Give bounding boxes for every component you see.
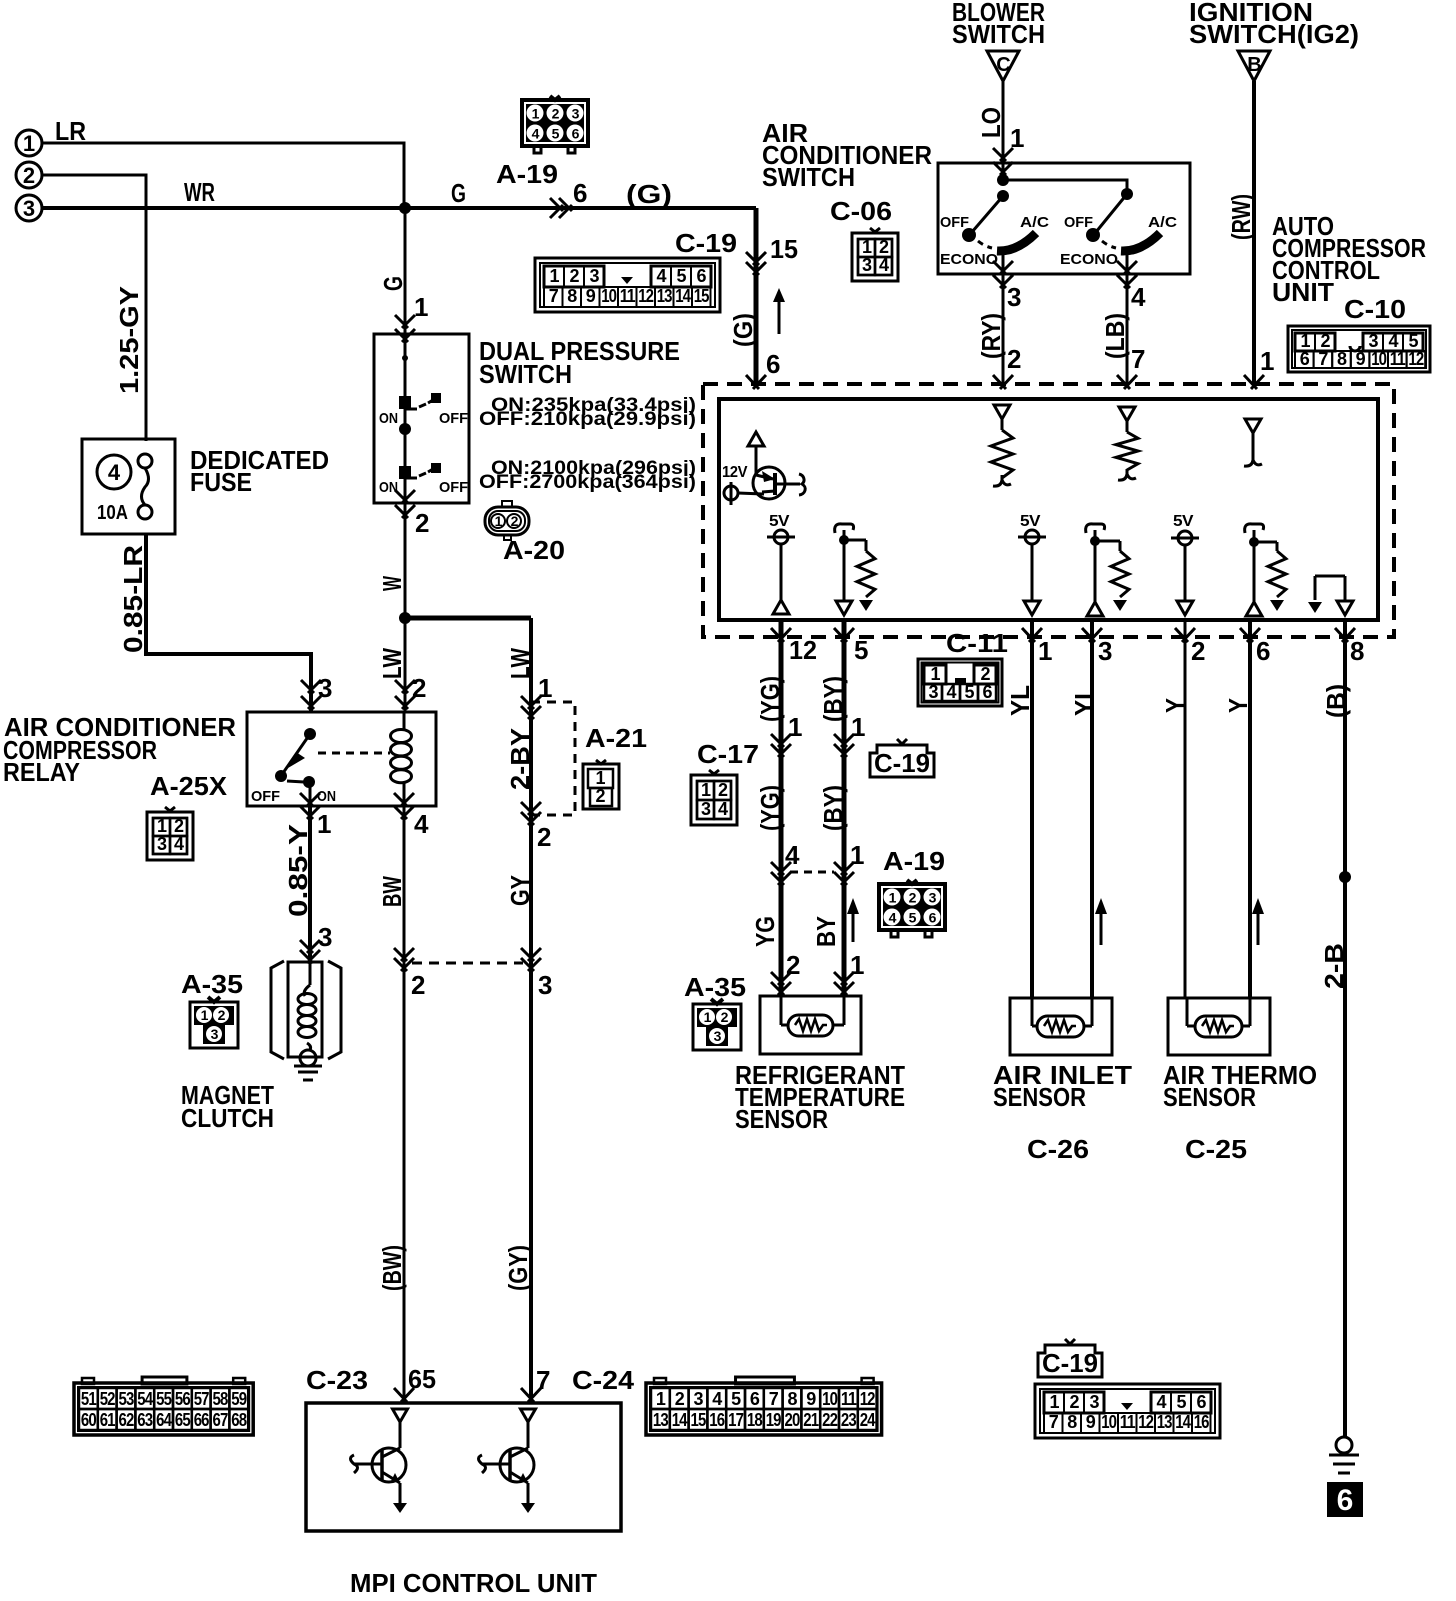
svg-text:4: 4 [532,126,540,142]
DPS small dot top [402,355,408,361]
wire 0.85-Y [308,806,312,961]
junction W/LW [399,612,411,624]
svg-text:A-35: A-35 [181,969,243,999]
svg-text:11: 11 [841,1389,857,1409]
svg-text:3: 3 [701,799,711,819]
svg-text:1: 1 [157,816,167,836]
svg-text:1: 1 [1049,1392,1059,1412]
chevron DPS pin 1 [395,315,415,328]
chevron C-19 pin 1 (BY) [834,734,854,747]
chevron magnet clutch pin 3 [300,940,320,953]
chevron DPS pin 2 [395,490,415,503]
connector A-35 icon (magnet clutch) [190,1002,238,1048]
wire G bus to right edge [754,208,759,384]
DPS switch 2 blade [419,469,433,476]
pin 12 internal triangle [773,600,789,614]
chevron relay pin 1 [300,793,320,806]
DPS wire internal [404,208,407,334]
DPS junction dot [399,423,411,435]
ground reference 6 box [1327,1482,1363,1517]
svg-text:2-B: 2-B [1319,943,1349,989]
svg-text:G: G [451,178,466,208]
svg-text:13: 13 [1157,1412,1173,1432]
svg-text:1: 1 [656,1389,666,1409]
svg-text:7: 7 [1049,1412,1059,1432]
svg-text:3: 3 [589,266,599,286]
svg-text:2: 2 [595,786,605,806]
svg-text:5: 5 [731,1389,741,1409]
svg-text:ECONO: ECONO [1060,251,1118,268]
svg-text:LO: LO [976,107,1006,138]
wire YL left [1030,620,1034,998]
svg-text:UNIT: UNIT [1272,277,1334,307]
svg-text:1: 1 [201,1007,209,1023]
svg-text:C-19: C-19 [1042,1348,1098,1378]
internal pin (RY) triangle [994,405,1010,419]
svg-text:4: 4 [712,1389,722,1409]
svg-text:12: 12 [860,1389,876,1409]
svg-text:(B): (B) [1321,684,1351,718]
svg-text:1: 1 [851,712,865,742]
connector A-35 icon (refrigerant) [693,1004,741,1050]
svg-text:2: 2 [415,508,429,538]
svg-text:1: 1 [1038,636,1052,666]
svg-text:54: 54 [137,1389,153,1409]
svg-text:ON: ON [379,479,398,496]
MPI transistor Q2 [393,1409,408,1422]
refrigerant sensor thermistor [780,996,783,1025]
A/C switch internal wire [1002,163,1005,180]
svg-text:13: 13 [653,1410,669,1430]
chevron relay pin 3 [301,680,321,693]
svg-text:2: 2 [1191,636,1205,666]
wire 0.85-LR fuse to relay pin 3 [146,534,311,712]
wire BW [403,806,406,1403]
svg-text:3: 3 [538,970,552,1000]
internal up arrow triangle [748,432,764,446]
svg-text:2: 2 [569,266,579,286]
svg-text:0.85-Y: 0.85-Y [283,824,313,917]
direction arrow (air inlet) [1100,912,1103,945]
svg-text:(YG): (YG) [755,785,785,831]
air conditioner compressor relay box [247,712,436,806]
svg-text:(LB): (LB) [1100,313,1130,359]
relay coil [403,712,406,730]
svg-text:5: 5 [1408,331,1418,351]
internal pin (RW) triangle [1245,419,1261,433]
svg-text:4: 4 [718,799,728,819]
air inlet sensor box [1010,998,1112,1055]
svg-text:OFF: OFF [251,788,280,805]
svg-text:1: 1 [414,292,428,322]
svg-text:2: 2 [1069,1392,1079,1412]
chevron MPI pin 65 [394,1388,414,1402]
svg-text:21: 21 [803,1410,819,1430]
DPS switch 2 contact blob [399,466,411,479]
sense column pin 6 [1245,524,1264,533]
svg-text:(GY): (GY) [503,1245,533,1291]
magnet clutch pulley right [328,961,341,1059]
svg-text:C-17: C-17 [697,739,759,769]
svg-text:A-19: A-19 [496,159,558,189]
svg-text:1: 1 [930,664,940,684]
chevron A-21 pin 2 [521,802,541,815]
svg-text:RELAY: RELAY [3,757,80,787]
svg-text:SWITCH: SWITCH [952,19,1045,49]
svg-text:A-21: A-21 [585,723,647,753]
blower switch terminal C [987,51,1019,81]
svg-text:CLUTCH: CLUTCH [181,1103,274,1133]
direction arrow (air thermo) [1257,912,1260,945]
wire (RY) [1002,274,1005,384]
svg-text:W: W [377,576,407,591]
svg-text:14: 14 [1175,1412,1191,1432]
A/C switch 2 OFF dot [1086,228,1100,242]
pin 3 internal triangle [1087,602,1103,616]
svg-text:63: 63 [137,1410,153,1430]
svg-text:2: 2 [552,106,560,122]
svg-text:67: 67 [213,1410,229,1430]
svg-text:1: 1 [532,106,540,122]
wire LW left to relay pin 2 [404,618,407,712]
wire (RW) [1252,81,1256,384]
svg-text:LW: LW [377,648,407,679]
refrigerant temperature sensor box [760,996,861,1054]
svg-text:A-19: A-19 [883,846,945,876]
chevron RW into control unit [1244,375,1264,389]
branch wire to LW right [405,616,531,621]
wire LO [1002,81,1005,163]
svg-text:1: 1 [701,780,711,800]
internal pin (LB) triangle [1119,407,1135,421]
svg-text:23: 23 [841,1410,857,1430]
svg-text:ON: ON [379,410,398,427]
chevron relay pin 2 [395,680,415,693]
svg-text:66: 66 [194,1410,210,1430]
svg-text:12: 12 [789,635,817,665]
relay blade with arrow [283,734,310,773]
svg-text:3: 3 [1368,331,1378,351]
svg-text:YL: YL [1005,685,1035,716]
svg-text:5: 5 [854,635,868,665]
svg-text:OFF: OFF [439,479,468,496]
svg-text:3: 3 [693,1389,703,1409]
svg-text:(RW): (RW) [1226,194,1256,240]
dashed link BW-GY [412,962,523,965]
air conditioner switch box [938,163,1190,274]
svg-text:12: 12 [1408,349,1424,369]
svg-text:3: 3 [1098,636,1112,666]
connector C-10 icon [1288,326,1430,372]
svg-text:59: 59 [231,1389,247,1409]
svg-text:OFF:210kpa(29.9psi): OFF:210kpa(29.9psi) [479,409,696,430]
svg-text:OFF: OFF [1064,214,1093,231]
svg-text:1: 1 [704,1009,712,1025]
pin 8 internal triangle [1337,601,1353,615]
A/C switch 1 dashed [978,241,992,248]
chevron LB into control unit [1117,375,1137,389]
svg-text:2: 2 [23,163,35,188]
svg-text:FUSE: FUSE [190,467,252,497]
pin 6 internal triangle [1246,602,1262,616]
svg-text:10: 10 [1371,349,1387,369]
A/C switch link wire [1003,180,1127,194]
svg-text:5V: 5V [1020,513,1041,530]
svg-text:2: 2 [909,890,917,906]
svg-text:SENSOR: SENSOR [1163,1082,1256,1112]
svg-text:LW: LW [505,648,535,679]
svg-text:52: 52 [100,1389,116,1409]
A/C switch 2 wire down [1126,251,1129,274]
connector A-19 icon (mid) [879,884,945,930]
svg-text:(YG): (YG) [755,676,785,722]
svg-text:ON: ON [317,788,336,805]
svg-text:5V: 5V [1173,513,1194,530]
magnet clutch housing [288,962,322,1057]
internal resistor R1 [1001,419,1004,430]
svg-text:4: 4 [946,682,956,702]
svg-text:4: 4 [879,255,889,275]
terminal 2 [16,162,42,188]
junction WR/G [399,202,411,214]
wire 2-BY [529,702,533,815]
svg-text:(RY): (RY) [976,313,1006,359]
connector C-06 icon [852,233,898,281]
svg-text:2: 2 [411,970,425,1000]
chevron GY A-19 crossing [521,948,541,961]
svg-text:6: 6 [750,1389,760,1409]
svg-text:15: 15 [770,234,798,264]
wire (LB) [1126,274,1129,384]
svg-text:4: 4 [1156,1392,1166,1412]
svg-text:12V: 12V [722,464,748,481]
svg-text:14: 14 [672,1410,688,1430]
svg-text:5: 5 [1176,1392,1186,1412]
connector A-21 icon [583,764,619,809]
A/C switch 1 OFF dot [962,228,976,242]
control unit dashed box [703,384,1394,637]
connector C-23 icon [74,1383,253,1435]
svg-text:B: B [1247,54,1261,76]
pin 1 internal triangle [1024,601,1040,615]
svg-text:4: 4 [656,266,666,286]
svg-text:3: 3 [928,682,938,702]
chevron RY into control unit [993,375,1013,389]
chevron A/C switch pin 3 [993,261,1013,274]
wire (B) to ground [1343,620,1347,1437]
svg-text:64: 64 [156,1410,172,1430]
svg-text:3: 3 [211,1026,219,1042]
svg-text:11: 11 [1120,1412,1136,1432]
svg-text:15: 15 [691,1410,707,1430]
direction arrow up [778,296,781,334]
wire Y right [1248,620,1252,998]
magnet clutch coil [309,962,312,985]
A/C switch left pivot dot [997,190,1009,202]
svg-text:6: 6 [1300,349,1310,369]
svg-text:20: 20 [785,1410,801,1430]
svg-text:YL: YL [1069,685,1099,716]
internal resistor R2 [1126,421,1129,432]
svg-text:C-23: C-23 [306,1365,368,1395]
svg-text:1: 1 [850,950,864,980]
svg-text:5V: 5V [769,513,790,530]
chevron pin 8 (B) [1335,628,1355,642]
magnet clutch ground circle [300,1050,316,1066]
svg-text:2: 2 [511,513,519,529]
dedicated fuse box [82,439,175,534]
chevron A-19 pin 1 (BY) [834,862,854,875]
svg-text:10A: 10A [97,502,128,524]
svg-text:17: 17 [728,1410,744,1430]
svg-text:ECONO: ECONO [940,251,998,268]
svg-text:C-26: C-26 [1027,1134,1089,1164]
wire Y left [1184,620,1187,998]
connector A-20 icon [485,507,529,535]
svg-text:4: 4 [1388,331,1398,351]
svg-text:A-20: A-20 [503,535,565,565]
svg-text:A-35: A-35 [684,972,746,1002]
wire YL right [1090,620,1094,998]
A-21 dashed outline [531,702,575,815]
air thermo thermistor [1186,998,1189,1026]
chevron pin 5 [834,628,854,642]
relay ON contact dot [303,776,315,788]
svg-text:55: 55 [156,1389,172,1409]
svg-text:YG: YG [750,916,780,947]
svg-text:2: 2 [537,822,551,852]
relay dashed link to coil [318,752,390,755]
wire LW right branch down [529,618,533,702]
MPI transistor Q3 [521,1409,536,1422]
svg-text:1: 1 [788,712,802,742]
A/C switch right dot [1121,188,1133,200]
chevron refrigerant sensor pin 2 [771,972,791,985]
svg-text:Y: Y [1160,698,1190,713]
svg-text:7: 7 [1131,344,1145,374]
chevron A/C switch pin 4 [1117,261,1137,274]
connector C-19 icon (bottom) [1035,1384,1220,1438]
svg-text:BY: BY [811,916,841,947]
svg-text:8: 8 [567,286,577,306]
sense column pin 3 [1086,524,1105,533]
svg-text:1: 1 [862,237,872,257]
svg-text:SWITCH: SWITCH [479,359,572,389]
connector A-19 inline crossing pin 6 [550,198,563,218]
svg-text:1: 1 [595,768,605,788]
svg-text:19: 19 [766,1410,782,1430]
internal contact hook [1252,433,1255,458]
wire (BY) [842,620,847,996]
wire from terminal 2 to fuse [42,175,146,441]
svg-text:1: 1 [1300,331,1310,351]
svg-text:24: 24 [860,1410,876,1430]
chevron pin 3 (YL) [1082,628,1102,642]
svg-text:7: 7 [769,1389,779,1409]
svg-text:(BY): (BY) [818,676,848,722]
svg-text:4: 4 [1131,282,1146,312]
relay blade link [287,781,304,782]
svg-text:4: 4 [174,834,184,854]
terminal 3 [16,195,42,221]
svg-text:51: 51 [81,1389,97,1409]
svg-text:3: 3 [1007,282,1021,312]
svg-text:2: 2 [980,664,990,684]
svg-text:9: 9 [1086,1412,1096,1432]
connector C-11 icon [918,659,1002,706]
terminal 1 (battery feed) [16,130,42,156]
connector C-19 joint icon (mid) [870,745,934,777]
svg-text:5: 5 [676,266,686,286]
svg-text:A-25X: A-25X [150,771,228,801]
chevron A/C switch pin 1 [993,148,1013,161]
svg-text:4: 4 [889,910,897,926]
svg-text:1: 1 [549,266,559,286]
svg-text:57: 57 [194,1389,210,1409]
svg-text:8: 8 [1337,349,1347,369]
svg-text:(G): (G) [728,313,758,347]
svg-text:7: 7 [1318,349,1328,369]
svg-text:53: 53 [119,1389,135,1409]
svg-text:2: 2 [174,816,184,836]
svg-text:C-06: C-06 [830,196,892,226]
svg-text:C-10: C-10 [1344,294,1406,324]
magnet clutch pulley left [271,961,284,1059]
ignition terminal B [1238,51,1270,81]
svg-text:3: 3 [1089,1392,1099,1412]
svg-text:13: 13 [657,286,673,306]
svg-text:C-19: C-19 [874,748,930,778]
relay pivot dot [304,728,316,740]
svg-text:6: 6 [1256,636,1270,666]
svg-text:A/C: A/C [1148,214,1177,231]
direction arrow (BY) [852,912,855,942]
svg-text:2: 2 [879,237,889,257]
svg-text:3: 3 [318,922,332,952]
svg-text:2: 2 [1007,344,1021,374]
svg-text:2: 2 [718,780,728,800]
svg-text:BW: BW [377,876,407,907]
chevron pin 6 (Y) [1240,628,1260,642]
svg-text:MPI CONTROL UNIT: MPI CONTROL UNIT [350,1568,597,1596]
svg-text:10: 10 [822,1389,838,1409]
svg-text:7: 7 [549,286,559,306]
DPS switch 1 contact blob [399,396,411,409]
fuse element [138,454,152,468]
svg-text:2: 2 [1320,331,1330,351]
svg-text:2: 2 [675,1389,685,1409]
svg-text:61: 61 [100,1410,116,1430]
svg-text:16: 16 [1194,1412,1210,1432]
sense column pin 5 [835,524,854,533]
svg-text:6: 6 [766,349,780,379]
A/C switch 2 contact arc [1121,233,1160,251]
svg-text:OFF:2700kpa(364psi): OFF:2700kpa(364psi) [479,472,696,493]
svg-text:6: 6 [1196,1392,1206,1412]
pin 8 internal loop [1308,602,1322,613]
svg-text:(G): (G) [626,179,672,209]
A/C switch 1 blade [972,196,1003,232]
svg-text:8: 8 [1067,1412,1077,1432]
fuse number 4 [97,455,131,489]
svg-text:GY: GY [505,875,535,906]
chevron pin 1 (YL) [1022,628,1042,642]
svg-text:9: 9 [806,1389,816,1409]
wire WR bus from terminal 3 [42,206,756,210]
chevron MPI pin 7 [521,1388,541,1402]
chevron pin 2 (Y) [1175,628,1195,642]
pin 2 internal triangle [1177,601,1193,615]
